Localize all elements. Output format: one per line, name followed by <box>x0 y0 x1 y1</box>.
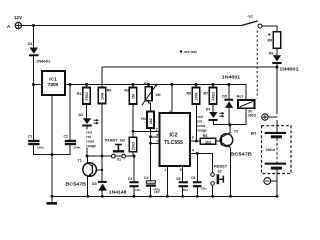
svg-text:1N4001: 1N4001 <box>36 59 51 64</box>
svg-text:see text: see text <box>184 50 197 54</box>
svg-text:5: 5 <box>180 168 182 172</box>
svg-text:IC2: IC2 <box>169 133 177 139</box>
svg-text:470Ω: 470Ω <box>212 92 216 101</box>
svg-text:1M: 1M <box>132 94 136 99</box>
svg-text:D4: D4 <box>206 108 211 112</box>
svg-text:D5: D5 <box>222 94 227 98</box>
svg-text:6: 6 <box>157 133 159 137</box>
svg-text:D3: D3 <box>92 182 97 186</box>
svg-text:C2: C2 <box>64 135 68 139</box>
svg-text:P1: P1 <box>144 82 148 86</box>
svg-text:12V: 12V <box>14 15 23 20</box>
svg-text:C3: C3 <box>128 177 132 181</box>
svg-text:2k2: 2k2 <box>149 118 153 124</box>
svg-text:C6: C6 <box>191 176 195 180</box>
svg-text:rood: rood <box>197 124 205 128</box>
svg-text:rood: rood <box>86 139 94 143</box>
svg-text:150Ω: 150Ω <box>132 142 136 151</box>
svg-text:red: red <box>197 115 202 119</box>
svg-text:S2: S2 <box>218 170 222 174</box>
svg-text:R6: R6 <box>107 89 112 93</box>
svg-text:470Ω: 470Ω <box>85 92 89 101</box>
svg-text:1N4001: 1N4001 <box>222 75 241 80</box>
svg-text:1N4001: 1N4001 <box>279 67 299 72</box>
svg-text:T1: T1 <box>78 159 82 163</box>
svg-text:2: 2 <box>156 127 158 131</box>
svg-text:R9: R9 <box>268 38 273 42</box>
svg-text:C1: C1 <box>28 135 32 139</box>
svg-text:RESET: RESET <box>214 164 228 169</box>
svg-text:10n: 10n <box>183 188 188 192</box>
svg-text:100n: 100n <box>37 146 44 150</box>
svg-text:rot: rot <box>86 135 92 139</box>
svg-text:R2: R2 <box>124 88 129 92</box>
svg-text:T2: T2 <box>234 129 238 133</box>
svg-text:1M: 1M <box>156 93 161 97</box>
svg-text:100k: 100k <box>195 92 199 100</box>
svg-text:≥50Ω: ≥50Ω <box>248 114 257 118</box>
svg-text:10n: 10n <box>135 188 140 192</box>
svg-text:BC547B: BC547B <box>66 181 87 187</box>
svg-text:R3: R3 <box>120 139 125 143</box>
svg-text:C4: C4 <box>144 176 148 180</box>
svg-text:TLC555: TLC555 <box>164 140 183 146</box>
svg-text:BC547B: BC547B <box>230 151 252 157</box>
svg-text:7: 7 <box>157 140 159 144</box>
svg-text:R4: R4 <box>141 117 146 121</box>
svg-text:7805: 7805 <box>48 82 59 88</box>
svg-text:Bt1: Bt1 <box>251 132 257 136</box>
svg-text:100n: 100n <box>73 146 80 150</box>
svg-text:re1: re1 <box>248 15 253 19</box>
svg-text:2k2: 2k2 <box>205 140 211 144</box>
svg-text:D2: D2 <box>79 113 84 117</box>
svg-text:rouge: rouge <box>197 129 207 133</box>
svg-text:100k: 100k <box>101 92 105 100</box>
svg-text:R8: R8 <box>203 134 208 138</box>
svg-text:D6: D6 <box>269 51 274 55</box>
svg-text:D1: D1 <box>28 42 33 46</box>
svg-text:NiCd: NiCd <box>266 148 276 152</box>
svg-text:16V: 16V <box>154 190 160 194</box>
svg-text:4: 4 <box>192 148 194 152</box>
svg-text:rouge: rouge <box>86 144 96 148</box>
svg-text:R5: R5 <box>187 92 192 96</box>
svg-text:C5: C5 <box>176 177 180 181</box>
svg-text:red: red <box>86 130 91 134</box>
svg-text:8: 8 <box>169 110 171 114</box>
svg-text:R7: R7 <box>204 92 209 96</box>
svg-text:R1: R1 <box>77 92 82 96</box>
svg-text:1N4148: 1N4148 <box>109 190 127 195</box>
svg-text:IC1: IC1 <box>49 77 57 83</box>
svg-text:Re1: Re1 <box>237 94 244 98</box>
svg-text:S1: S1 <box>117 158 121 162</box>
svg-text:1: 1 <box>164 168 166 172</box>
svg-text:3: 3 <box>192 136 194 140</box>
svg-text:10n: 10n <box>201 187 206 191</box>
svg-text:START: START <box>105 138 119 143</box>
